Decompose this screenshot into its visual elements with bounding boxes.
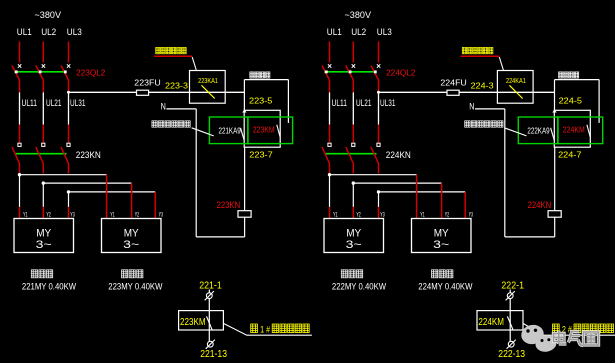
svg-text:Y1: Y1 (333, 211, 338, 218)
wire motor1 lead 2 red tail left (42, 207, 44, 219)
wire phase L2 UL21 segment right (352, 92, 354, 124)
svg-text:UL1: UL1 (327, 27, 342, 38)
wire button right drop right (598, 80, 600, 123)
watermark text (554, 331, 599, 346)
wire phase L2 UL21 segment left (42, 92, 44, 124)
wire phase L1 UL11 segment left (19, 92, 21, 124)
svg-text:Y3: Y3 (469, 211, 474, 218)
fuse 223FU (137, 90, 149, 95)
label from-main-circuit right (465, 121, 470, 127)
svg-text:221MY 0.40KW: 221MY 0.40KW (22, 281, 76, 292)
wire phase L3 below breaker right (378, 80, 380, 92)
wire button right drop left (287, 80, 289, 123)
relay contact 224KA1 box (497, 71, 533, 104)
svg-text:223QL2: 223QL2 (76, 69, 105, 78)
svg-text:Y1: Y1 (110, 211, 115, 218)
svg-text:3~: 3~ (346, 239, 362, 251)
wire motor2 lead 2 right (441, 183, 443, 218)
breaker 223QL2 pole 2 (36, 64, 45, 80)
wire control feed left (69, 91, 245, 93)
wire terminal vertical right (509, 290, 511, 348)
wire button feed drop right (554, 80, 556, 111)
underline from-power-line left (154, 55, 192, 57)
svg-text:~380V: ~380V (345, 10, 372, 20)
svg-text:224KN: 224KN (386, 150, 411, 160)
wire branch row 3 left (69, 191, 156, 193)
node junction row 1 left (18, 173, 21, 176)
wire phase L3 below contactor left (68, 164, 70, 174)
svg-text:Y2: Y2 (356, 211, 361, 218)
node feed tap left (67, 91, 70, 94)
label to-cabinet text left (251, 324, 258, 333)
contactor 224KN pole 3 (371, 143, 380, 163)
wire phase L2 below breaker right (352, 80, 354, 92)
wire coil link left (244, 147, 246, 211)
svg-text:223KN: 223KN (76, 150, 101, 160)
svg-text:Y2: Y2 (46, 211, 51, 218)
wire coil link right (554, 147, 556, 211)
wire branch row 2 left (43, 182, 131, 184)
leader from-power-line right (499, 57, 503, 71)
svg-text:Y3: Y3 (159, 211, 164, 218)
svg-text:224QL2: 224QL2 (386, 69, 415, 78)
svg-text:MY: MY (434, 227, 449, 239)
wire phase L1 incoming left (19, 42, 21, 63)
motor 221MY (14, 219, 74, 253)
label brake text motor1 right (341, 270, 347, 278)
svg-text:3~: 3~ (433, 239, 449, 251)
node feed junction right (552, 110, 556, 113)
contact blade 222KA9 (551, 128, 555, 141)
wire branch row 3 right (379, 191, 466, 193)
svg-text:UL21: UL21 (356, 98, 372, 109)
wire motor2 lead 3 left (154, 192, 156, 219)
highlight box 222KA9 (518, 117, 558, 144)
wire control feed right (379, 91, 555, 93)
coil 223KN (238, 211, 251, 218)
label to-cabinet text right (553, 324, 560, 333)
wire phase L2 below breaker left (42, 80, 44, 92)
svg-text:221-13: 221-13 (200, 349, 227, 360)
terminal 222-1 (507, 293, 513, 299)
svg-text:UL11: UL11 (332, 98, 348, 109)
relay contact 223KA1 box (190, 71, 226, 104)
svg-text:Y2: Y2 (135, 211, 140, 218)
wire motor1 lead 3 red tail left (68, 207, 70, 219)
svg-text:Y1: Y1 (23, 211, 28, 218)
contact blade 224KM aux (587, 125, 590, 137)
wire phase L1 to contactor right (329, 125, 331, 143)
node junction row 1 right (328, 173, 331, 176)
terminal 222-13 (508, 341, 514, 347)
leader to-cabinet right (523, 323, 615, 335)
svg-text:3~: 3~ (123, 239, 139, 251)
svg-text:Y1: Y1 (420, 211, 425, 218)
svg-text:Y3: Y3 (70, 211, 75, 218)
contact box 224KM (477, 311, 523, 330)
wire button top left (244, 79, 288, 81)
contactor coil 224KM box (554, 110, 590, 147)
svg-text:UL3: UL3 (377, 27, 392, 38)
contactor 223KN pole 3 (61, 143, 70, 163)
contactor coil 223KM box (244, 110, 280, 147)
svg-text:1 #: 1 # (260, 324, 271, 334)
contact blade 224KM (507, 316, 513, 330)
svg-text:UL2: UL2 (41, 27, 56, 38)
wire phase L1 below breaker left (19, 80, 21, 92)
wire phase L1 incoming right (329, 42, 331, 63)
wire motor1 lead 3 left (68, 192, 70, 207)
wire motor2 lead 3 right (464, 192, 466, 219)
highlight box 223KM (248, 117, 293, 144)
svg-text:222MY 0.40KW: 222MY 0.40KW (332, 281, 386, 292)
wire motor1 lead 1 red tail left (19, 207, 21, 219)
highlight box 221KA9 (209, 117, 248, 144)
node junction row 2 right (352, 181, 355, 184)
label from-power-line left (156, 47, 160, 53)
wire phase L3 below contactor right (378, 164, 380, 174)
svg-text:222KA9: 222KA9 (527, 127, 550, 136)
motor 222MY (324, 219, 384, 253)
svg-text:N: N (161, 102, 166, 113)
wire N horizontal right (475, 108, 505, 110)
label from-power-line right (462, 47, 466, 53)
wire phase L2 incoming left (42, 42, 44, 63)
wire button top right (555, 79, 600, 81)
contact blade 223KM aux (277, 125, 280, 137)
wire branch row 1 left (20, 174, 107, 176)
underline from-power-line right (461, 55, 500, 57)
node junction row 3 left (67, 190, 70, 193)
breaker 224QL2 pole 3 (371, 64, 380, 80)
wire N vertical left (195, 109, 197, 237)
wire phase L3 to contactor left (68, 125, 70, 143)
svg-text:223KN: 223KN (217, 200, 241, 210)
wire motor1 lead 2 red tail right (352, 207, 354, 219)
wire coil return left (244, 217, 246, 237)
wire motor1 lead 3 red tail right (378, 207, 380, 219)
watermark logo bubble 1 (519, 323, 545, 346)
contact blade 223KM (207, 316, 213, 330)
svg-text:UL31: UL31 (380, 98, 396, 109)
svg-text:224KM: 224KM (478, 317, 504, 328)
svg-text:Y2: Y2 (445, 211, 450, 218)
svg-text:223KM: 223KM (180, 317, 206, 328)
coil 224KN (548, 211, 561, 218)
leader from-main-circuit right (504, 128, 526, 136)
wire phase L1 below breaker right (329, 80, 331, 92)
svg-text:221KA9: 221KA9 (219, 127, 242, 136)
svg-text:MY: MY (124, 227, 139, 239)
wire phase L3 incoming right (378, 42, 380, 63)
motor 224MY (412, 219, 472, 253)
contactor 223KN linkage (15, 153, 67, 155)
svg-text:UL3: UL3 (67, 27, 82, 38)
svg-text:224KN: 224KN (528, 200, 552, 210)
leader from-power-line left (192, 57, 196, 71)
contactor 223KN pole 1 (12, 143, 21, 163)
svg-text:UL31: UL31 (70, 98, 86, 109)
svg-text:223FU: 223FU (134, 77, 160, 87)
svg-text:223-3: 223-3 (165, 81, 188, 91)
wire N bottom right (505, 236, 555, 238)
label brake text motor2 left (122, 270, 128, 278)
contactor 224KN pole 2 (346, 143, 355, 163)
wire button feed drop left (243, 80, 245, 111)
svg-text:223-7: 223-7 (249, 150, 273, 160)
svg-text:224KA1: 224KA1 (506, 76, 526, 85)
wire N bottom left (196, 236, 244, 238)
wire coil return right (554, 217, 556, 237)
wire motor2 lead 1 left (106, 175, 108, 219)
wire N vertical right (504, 109, 506, 237)
wire phase L3 to contactor right (378, 125, 380, 143)
svg-text:UL11: UL11 (22, 98, 38, 109)
breaker 223QL2 linkage (14, 71, 67, 73)
wire phase L2 to contactor left (42, 125, 44, 143)
terminal 221-1 (206, 293, 212, 299)
label from-main-circuit left (152, 121, 157, 127)
wire terminal vertical left (208, 290, 210, 348)
node junction row 3 right (377, 190, 380, 193)
fuse 224FU (447, 90, 459, 95)
wire phase L1 to contactor left (19, 125, 21, 143)
svg-text:224KM: 224KM (563, 125, 585, 134)
svg-text:UL1: UL1 (17, 27, 32, 38)
label brake text motor1 left (31, 270, 37, 278)
wire phase L3 UL31 segment left (68, 92, 70, 124)
breaker 223QL2 pole 1 (12, 64, 21, 80)
label emergency-button left (250, 72, 254, 78)
wire branch row 1 right (330, 174, 417, 176)
contactor 224KN pole 1 (322, 143, 331, 163)
svg-text:223MY 0.40KW: 223MY 0.40KW (108, 281, 162, 292)
wire phase L3 incoming left (68, 42, 70, 63)
svg-text:~380V: ~380V (35, 10, 62, 20)
wire motor1 lead 2 left (42, 183, 44, 207)
svg-text:224-5: 224-5 (559, 96, 583, 106)
svg-text:224-3: 224-3 (471, 81, 494, 91)
breaker 224QL2 pole 2 (346, 64, 355, 80)
svg-text:222-13: 222-13 (498, 349, 525, 360)
wire phase L2 incoming right (352, 42, 354, 63)
highlight box 224KM (558, 117, 603, 144)
wire motor2 lead 1 right (416, 175, 418, 219)
node feed tap right (377, 91, 380, 94)
contact blade 224KA1 (509, 85, 522, 98)
motor 223MY (102, 219, 162, 253)
svg-text:3~: 3~ (36, 239, 52, 251)
contact blade 221KA9 (241, 128, 245, 141)
label emergency-button right (559, 72, 563, 78)
svg-text:223KM: 223KM (253, 125, 275, 134)
svg-text:UL21: UL21 (46, 98, 62, 109)
terminal 221-13 (207, 341, 213, 347)
wire motor1 lead 1 left (19, 175, 21, 207)
breaker 224QL2 linkage (324, 71, 377, 73)
watermark logo bubble 2 (534, 334, 558, 354)
wire phase L1 UL11 segment right (329, 92, 331, 124)
contactor 223KN pole 2 (36, 143, 45, 163)
svg-text:224MY 0.40KW: 224MY 0.40KW (418, 281, 472, 292)
wire branch row 2 right (353, 182, 441, 184)
wire N horizontal left (166, 108, 196, 110)
wire motor1 lead 3 right (378, 192, 380, 207)
wire motor2 lead 2 left (131, 183, 133, 218)
contactor 224KN linkage (325, 153, 377, 155)
svg-text:MY: MY (36, 227, 51, 239)
contact box 223KM (179, 311, 224, 330)
contact blade 223KA1 (202, 85, 215, 98)
svg-text:N: N (469, 102, 474, 113)
node junction row 2 left (42, 181, 45, 184)
breaker 224QL2 pole 1 (322, 64, 331, 80)
wire motor1 lead 1 red tail right (329, 207, 331, 219)
node feed junction left (242, 110, 246, 113)
wire motor1 lead 1 right (329, 175, 331, 207)
svg-text:223KA1: 223KA1 (198, 76, 218, 85)
svg-text:223-5: 223-5 (249, 96, 273, 106)
wire phase L2 to contactor right (352, 125, 354, 143)
leader to-cabinet left (223, 323, 312, 335)
label brake text motor2 right (432, 270, 438, 278)
svg-text:Y3: Y3 (380, 211, 385, 218)
svg-text:MY: MY (346, 227, 361, 239)
wire phase L1 below contactor left (19, 164, 21, 174)
svg-text:UL2: UL2 (351, 27, 366, 38)
wire phase L3 UL31 segment right (378, 92, 380, 124)
leader from-main-circuit left (192, 128, 214, 136)
svg-text:224FU: 224FU (440, 77, 466, 87)
breaker 223QL2 pole 3 (61, 64, 70, 80)
wire motor1 lead 2 right (352, 183, 354, 207)
svg-text:221-1: 221-1 (199, 281, 222, 292)
svg-text:224-7: 224-7 (558, 150, 582, 160)
wire phase L3 below breaker left (68, 80, 70, 92)
wire phase L2 below contactor left (42, 164, 44, 174)
wire phase L2 below contactor right (352, 164, 354, 174)
svg-text:222-1: 222-1 (501, 281, 524, 292)
wire phase L1 below contactor right (329, 164, 331, 174)
